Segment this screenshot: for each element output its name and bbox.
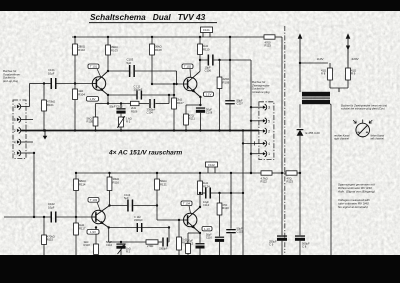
svg-text:F102: F102 [208,163,215,167]
svg-text:R 2: R 2 [126,250,131,254]
svg-text:4: 4 [268,142,270,146]
svg-text:R115: R115 [47,238,54,242]
svg-text:R 9: R 9 [351,72,356,76]
svg-text:5: 5 [268,119,270,123]
svg-text:T 104: T 104 [183,202,191,206]
svg-text:110V: 110V [317,57,325,61]
svg-text:No signal at terminals): No signal at terminals) [338,205,368,209]
svg-text:R107: R107 [177,101,184,105]
svg-text:R117: R117 [79,226,86,230]
svg-text:right channel: right channel [334,137,349,141]
svg-text:R109: R109 [223,80,230,84]
svg-text:R124: R124 [203,184,210,188]
svg-text:schaltet bei miniature plug di: schaltet bei miniature plug dient (Con) [341,107,385,111]
svg-text:R 8: R 8 [321,72,326,76]
svg-text:10μF: 10μF [48,71,55,75]
svg-text:5: 5 [14,118,16,122]
svg-text:R122: R122 [261,180,268,184]
svg-text:3: 3 [14,105,16,109]
svg-text:3300pF: 3300pF [159,248,168,251]
svg-text:C104: C104 [147,111,154,115]
svg-text:miniature plug: miniature plug [252,90,270,94]
svg-text:1,9V: 1,9V [90,230,96,234]
svg-text:T 101: T 101 [90,65,98,69]
svg-text:E 255 C20: E 255 C20 [306,131,321,135]
svg-text:4× AC 151/V rauscharm: 4× AC 151/V rauscharm [108,150,182,157]
svg-text:C 8: C 8 [302,245,307,249]
svg-text:5μF: 5μF [124,196,129,200]
svg-text:R108: R108 [155,48,162,52]
svg-text:C106: C106 [205,69,212,73]
svg-text:1,1V: 1,1V [204,227,210,231]
svg-text:R103: R103 [111,48,118,52]
svg-text:C114: C114 [203,203,210,207]
svg-text:3: 3 [268,106,270,110]
svg-text:4: 4 [14,141,16,145]
svg-text:1,9V: 1,9V [90,97,96,101]
svg-text:R113: R113 [265,44,272,48]
svg-text:C108: C108 [206,111,213,115]
svg-text:R121: R121 [160,182,167,186]
svg-text:C115: C115 [237,230,244,234]
svg-text:R104: R104 [78,92,85,96]
svg-text:3300pF: 3300pF [134,218,143,222]
svg-text:1: 1 [14,152,16,156]
svg-text:R106: R106 [131,109,138,113]
svg-text:T 103: T 103 [90,198,98,202]
svg-text:1,1V: 1,1V [206,92,212,96]
svg-text:10μF: 10μF [48,205,55,209]
svg-text:Schaltschema Dual TVV 43: Schaltschema Dual TVV 43 [90,12,206,22]
svg-text:R118: R118 [84,243,91,247]
svg-text:270Ω: 270Ω [147,244,153,248]
svg-text:C110: C110 [106,243,113,247]
svg-text:R120: R120 [222,206,229,210]
svg-text:R105: R105 [87,120,94,124]
svg-text:R101: R101 [47,103,54,107]
svg-text:1: 1 [268,152,270,156]
svg-text:R102: R102 [78,48,85,52]
svg-text:R123: R123 [287,180,294,184]
svg-text:pick-up plug: pick-up plug [2,79,19,83]
svg-text:left channel: left channel [371,137,385,141]
svg-text:C107: C107 [237,102,244,106]
svg-text:F101: F101 [203,28,210,32]
svg-text:R111: R111 [189,117,196,121]
svg-text:C 9: C 9 [269,243,274,247]
svg-text:R114: R114 [79,182,86,186]
svg-text:Aufn. (Signal von (Eingang): Aufn. (Signal von (Eingang) [337,190,375,194]
svg-text:220V: 220V [352,57,360,61]
svg-text:2: 2 [268,130,270,134]
svg-text:R110: R110 [203,47,210,51]
svg-text:50μF C105: 50μF C105 [110,104,123,108]
svg-text:R116: R116 [113,180,120,184]
svg-text:5μF: 5μF [127,61,132,65]
svg-text:3300pF: 3300pF [134,88,143,92]
svg-text:2: 2 [14,129,16,133]
svg-text:T 102: T 102 [184,65,192,69]
svg-text:C116: C116 [206,237,212,240]
svg-text:R 1: R 1 [126,120,131,124]
